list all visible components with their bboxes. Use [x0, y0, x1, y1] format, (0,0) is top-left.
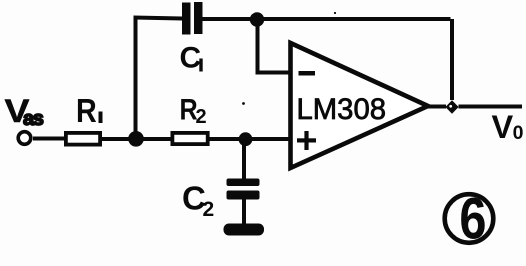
- svg-text:2: 2: [203, 198, 215, 221]
- svg-text:2: 2: [196, 106, 207, 128]
- svg-text:LM308: LM308: [297, 93, 387, 126]
- svg-text:as: as: [23, 108, 44, 130]
- svg-text:6: 6: [459, 187, 486, 251]
- svg-text:R: R: [76, 92, 97, 129]
- svg-text:C: C: [180, 42, 202, 75]
- svg-text:V: V: [492, 109, 514, 145]
- svg-text:0: 0: [513, 122, 524, 144]
